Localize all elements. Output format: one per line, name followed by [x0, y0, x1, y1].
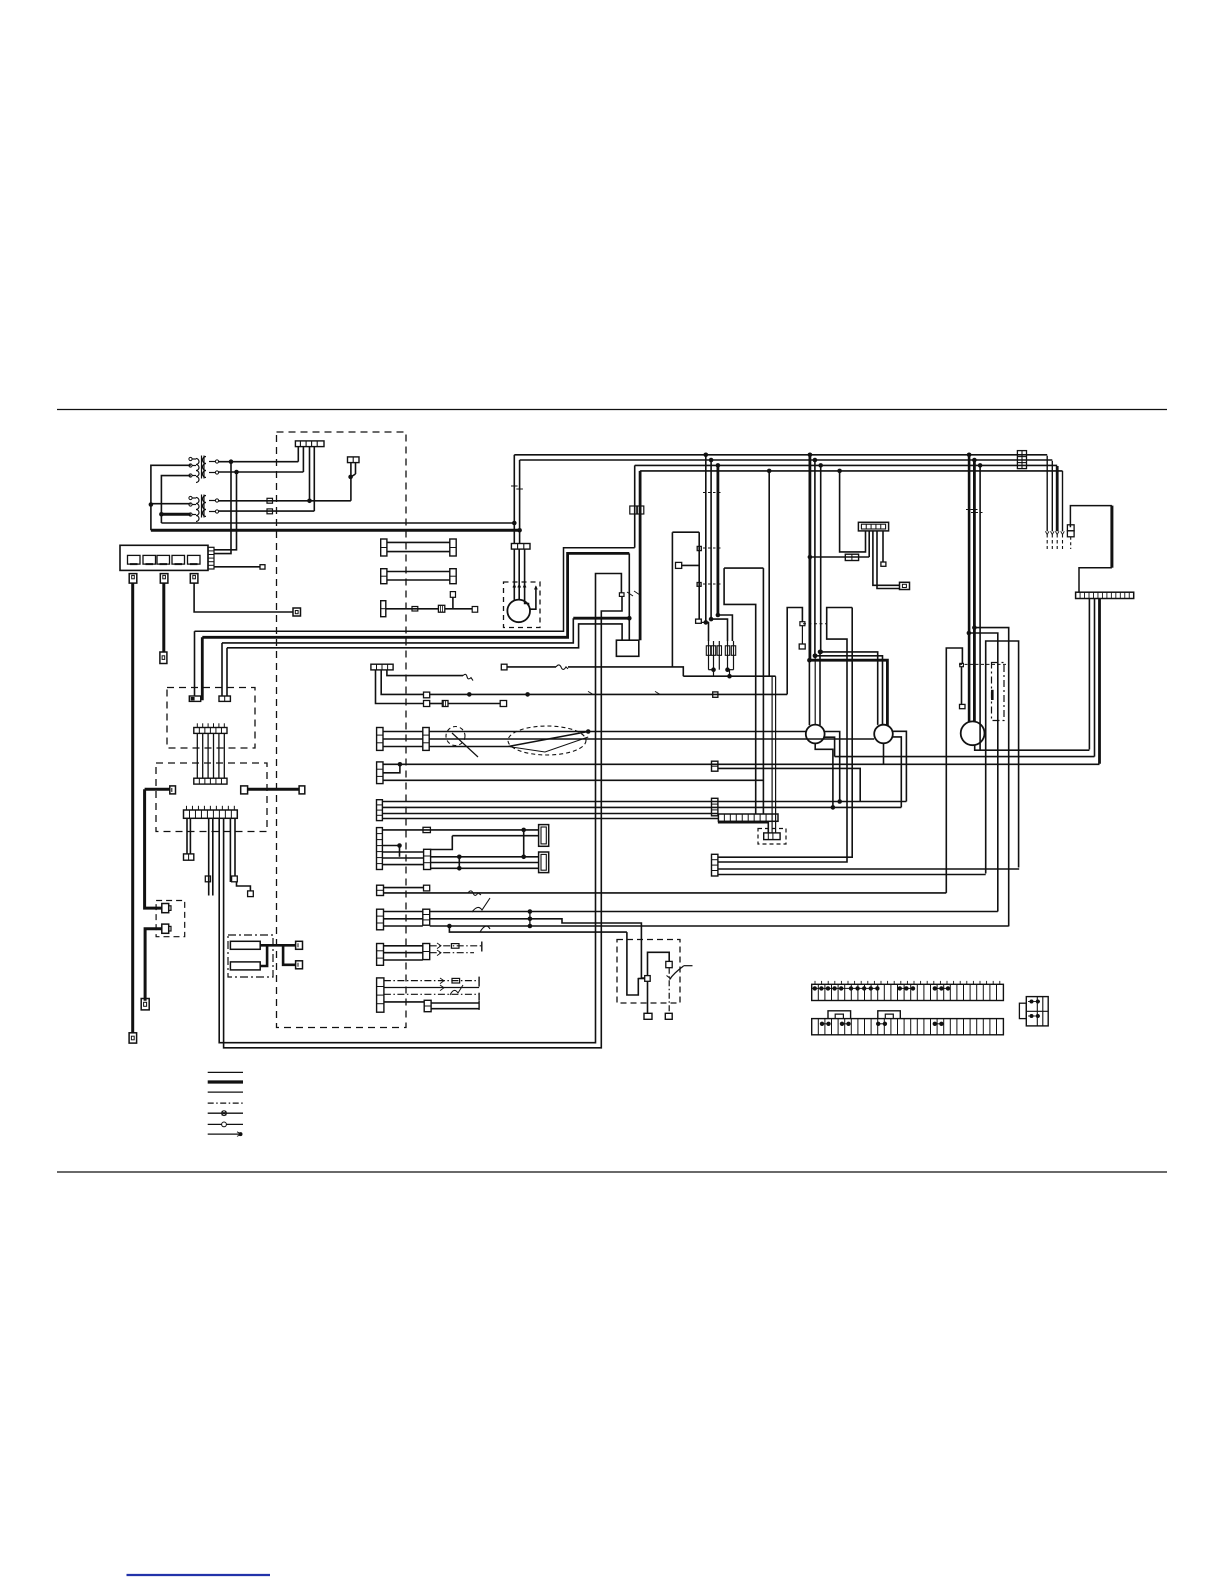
cable end bar 1 [481, 942, 483, 952]
wire c7 line4 [431, 856, 539, 858]
wire thick plug link [248, 788, 300, 791]
wire c7 line2 [452, 835, 538, 837]
diode pack elements [708, 641, 710, 670]
wire c7 jog [399, 846, 401, 857]
terminal sq row0b [424, 701, 430, 707]
wire thick jog y618 [573, 617, 629, 620]
inline connector pair [630, 506, 637, 514]
strip2 dots [820, 1022, 824, 1026]
wire c7 line6 [431, 867, 539, 869]
wire starter lead 4 [530, 587, 536, 610]
wire bundle end3 [221, 643, 223, 696]
relay connector block [858, 522, 888, 531]
strip2 bridge 1 [828, 1011, 851, 1019]
cable row4b [384, 987, 479, 989]
separator dashed meter [959, 663, 1006, 665]
connector 2P y887 [377, 885, 384, 895]
connector 2P a [189, 696, 200, 701]
relay box A [539, 825, 549, 847]
fuse F3 [157, 555, 170, 564]
cable end bar 4b [478, 993, 480, 1001]
headlamp R circle [874, 725, 893, 744]
wire jog right 1 [974, 628, 1008, 927]
junction dot [978, 463, 983, 468]
terminal square [260, 565, 265, 569]
splice squiggle [450, 985, 463, 995]
wire strip drop 1 [1088, 599, 1090, 750]
legend line dashdot [208, 1102, 243, 1104]
splice squiggle [468, 891, 481, 896]
wire bus4 tap drop [768, 471, 770, 676]
fuse F4 [172, 555, 185, 564]
arrow marks [440, 978, 444, 991]
wire coil1 primary lower [161, 476, 190, 523]
cable dashdot 1 [430, 945, 482, 947]
junction dot [808, 453, 813, 458]
connector 9P main ticks [185, 806, 187, 810]
wire connector pin2 [302, 447, 304, 472]
wire lampR bottom [883, 743, 885, 764]
wire switch feed [627, 932, 638, 995]
wire ignition sw riser thick [1070, 506, 1112, 528]
junction dot [831, 805, 836, 810]
junction dot [398, 762, 403, 767]
junction dot [159, 512, 164, 517]
wire connector pin3 [309, 447, 311, 501]
wire bus tap x820 [820, 465, 822, 652]
wire terminal link [682, 564, 700, 566]
wire sq3 link [701, 621, 706, 623]
wire row C [386, 608, 439, 610]
breakaway square [619, 593, 624, 597]
wire y768 jog [718, 768, 860, 801]
connector 9P main [184, 810, 238, 818]
fuse box [120, 545, 208, 570]
wire pair A line2 [387, 551, 450, 553]
switch blob [991, 690, 994, 700]
plug right mid [900, 582, 910, 589]
wire pair A line1 [387, 541, 450, 543]
dashed box connector group [167, 688, 255, 749]
wire headlight line2 [429, 738, 874, 740]
wire relay drop pair [873, 531, 900, 585]
junction dot [229, 459, 234, 464]
switch arm [670, 966, 684, 980]
wire long y893 [384, 892, 947, 894]
wire lamp1 taps [808, 660, 810, 725]
wire coil1 secondary bottom to connector [219, 471, 304, 473]
switch contact A [645, 976, 651, 982]
diode block [764, 833, 780, 840]
cable end bar 4a [478, 977, 480, 987]
plug contact 2 [162, 924, 169, 933]
wire fusebox to ground lug [214, 566, 260, 568]
wire R2 crossover thick [260, 945, 267, 966]
bus line 1 [514, 454, 1047, 456]
arrow tick [1051, 531, 1055, 534]
terminal sq A [644, 1013, 652, 1019]
wire y667 a [507, 666, 556, 668]
wire y918 to dot [430, 918, 530, 920]
junction dot [967, 631, 972, 636]
junction dot [528, 924, 533, 929]
wire r2 line2 jog [383, 764, 400, 773]
wire lamp feed 2 [815, 656, 883, 725]
legend line thin [208, 1071, 243, 1073]
wire long y764 thick-path [383, 763, 1100, 765]
sensor sq 1 [697, 546, 701, 550]
starter motor circle [507, 600, 530, 623]
wire diode feed [718, 823, 768, 833]
dashed box plug pair [156, 901, 185, 937]
wire plug1 main lead [131, 583, 134, 1033]
footer link underline [127, 1574, 271, 1576]
wire bus4 drop thick [639, 471, 642, 640]
wire bundle line1 [195, 548, 635, 632]
connector 3P y909 [377, 909, 384, 930]
junction dot [808, 555, 813, 560]
fuse plug 2 [160, 574, 168, 584]
connector pair row A right [450, 539, 456, 556]
terminal square b [232, 876, 238, 882]
wire pair to 2P block [186, 818, 188, 854]
wire lamp feed 1 [821, 652, 878, 725]
wire meter frame [946, 648, 962, 893]
junction dot [627, 616, 632, 621]
junction dot [709, 458, 714, 463]
inline connector [267, 509, 273, 514]
connector 4P row0 [371, 664, 393, 670]
cable dashdot row4a [384, 980, 479, 982]
junction block dots [1030, 1000, 1034, 1004]
wire c7 links [382, 851, 423, 853]
wire line y818 [382, 818, 718, 820]
terminal strip 1 [812, 984, 1004, 1000]
connector 6P stack top ticks [196, 723, 198, 727]
wire long y694 [430, 693, 788, 695]
connector pair row B right [450, 569, 456, 584]
wire bundle line2 thick [202, 553, 629, 637]
dashed box starter motor [504, 582, 541, 628]
junction dot [467, 692, 472, 697]
cable dashdot 2 [430, 952, 474, 954]
connector 6P stack bottom bar [194, 778, 227, 784]
junction dot [716, 613, 721, 618]
wire square b link [237, 882, 251, 891]
tap square meter [960, 663, 964, 666]
arrow tick [1061, 531, 1065, 534]
wire r1 link1 [383, 731, 423, 733]
wire bus tap x974 thick [973, 460, 976, 722]
wire row0 pin1 [381, 670, 423, 695]
ignition coil T2 [196, 498, 199, 522]
plug half B [241, 786, 248, 794]
wire bridge jog [986, 641, 1019, 874]
strip2 bridge 2 [878, 1011, 901, 1019]
junction dot [709, 617, 714, 622]
CDI unit box [616, 640, 638, 656]
terminal sq relay [881, 562, 886, 566]
junction dot [972, 625, 977, 630]
inline sq hatched row C [438, 605, 444, 612]
connector 2P relay [845, 554, 858, 560]
junction dot [818, 463, 823, 468]
wire bus drop x514 [513, 455, 515, 544]
relay box B [539, 852, 549, 873]
wire line y756 [835, 756, 1095, 758]
junction dot [521, 828, 526, 833]
connector 2P small [348, 457, 360, 463]
splice mark pair [966, 509, 978, 511]
wire pair mid [208, 818, 210, 895]
connector 3P inline y800 [712, 798, 718, 816]
wire to terminal [448, 703, 500, 705]
bus line 3 [635, 464, 1057, 466]
dashed loop callout small [446, 727, 465, 746]
wire relay drop sq [882, 531, 884, 562]
connector 6P top [295, 441, 324, 447]
junction dot [807, 658, 812, 663]
junction dot [727, 674, 732, 679]
connector 2P below [184, 854, 194, 860]
wire coil1 secondary top to connector [219, 461, 299, 463]
wire headlight line1 [429, 731, 806, 733]
wire y857 jog [718, 608, 852, 858]
inline sq [423, 827, 430, 832]
wire bus4 tap x839 [840, 471, 866, 552]
connector 2P y943 mid [423, 944, 430, 960]
end plug connector [141, 999, 149, 1010]
ignition coil T1 [196, 459, 199, 483]
wire coil1 primary left [151, 465, 191, 530]
wire pair B line1 [387, 571, 450, 573]
wire coil feed down-left 2 [214, 472, 237, 550]
wire contact A down [647, 981, 649, 1013]
wire row4e [431, 1002, 479, 1004]
splice marks on taps [703, 492, 721, 494]
wire jog 3 [706, 622, 709, 641]
wire coil2 primary ground stub [161, 513, 190, 516]
wire y874 long [718, 874, 986, 876]
connector 4P lights [377, 800, 383, 821]
wire R1 out thick [260, 944, 295, 947]
wire frame left [724, 568, 756, 814]
switch arm ext [684, 965, 693, 967]
wire drop to rect [628, 553, 630, 640]
junction dot [716, 463, 721, 468]
fuse plug 1 [129, 574, 137, 584]
tap square [800, 622, 805, 626]
dashed stub comp [1070, 537, 1072, 549]
wire c7 link [458, 857, 460, 869]
wire lampR right [893, 731, 907, 801]
splice squiggle [463, 674, 473, 680]
wire y869 long [718, 868, 1019, 870]
dashed box diode [758, 829, 786, 845]
junction dot [711, 667, 716, 672]
wire jog right 2 [969, 633, 998, 912]
wire y667 b [568, 667, 683, 676]
connector 2P b [219, 696, 230, 701]
terminal sq y667 [501, 664, 507, 670]
junction dot [725, 667, 730, 672]
arrow tick [1045, 531, 1049, 534]
wire thick bus y530 [151, 529, 520, 532]
junction block tab [1019, 1003, 1026, 1018]
wire 2P stems [350, 463, 352, 477]
wire bus3 drop [634, 465, 636, 547]
junction dot [837, 799, 842, 804]
plug1 end connector [129, 1033, 137, 1043]
wire links y909 [384, 911, 423, 913]
wire r1 link2 [383, 738, 423, 740]
terminal sq B [665, 1013, 672, 1019]
terminal square c [248, 891, 254, 897]
switch blade dashdot [668, 968, 670, 1014]
junction dot [348, 475, 353, 480]
wire frame right [762, 568, 764, 814]
junction dot [813, 654, 818, 659]
plug2 end connector [160, 652, 167, 664]
junction dot [528, 917, 533, 922]
terminal sq row0a [424, 692, 430, 698]
terminal sq row C up [450, 592, 455, 598]
wire c7 line5 [431, 862, 539, 864]
wire starter lead 2 [518, 549, 520, 600]
wire y862 jog [718, 608, 852, 863]
wire contact A link [638, 978, 644, 980]
connector pair row B left [381, 569, 387, 584]
plug half A [170, 786, 176, 794]
wire y887 stub [384, 887, 424, 889]
wire tach bottom [975, 745, 1090, 750]
junction dot [967, 453, 972, 458]
wire coil feed down-left 1 [214, 462, 231, 554]
diode pack ties [709, 669, 714, 671]
inline square y694 [713, 692, 718, 697]
wire connector pin4 [313, 447, 315, 512]
splice mark [511, 485, 518, 487]
terminal sq tap [799, 644, 805, 649]
wire row2 line3 [383, 779, 763, 781]
junction dot [704, 453, 709, 458]
wire y918 cont to switch [530, 919, 645, 978]
plug3 end connector [293, 608, 301, 616]
wire links y943 [384, 945, 423, 947]
junction dot [234, 470, 239, 475]
wire collector y676 [683, 675, 775, 677]
wire row C cont [445, 608, 472, 610]
bottom horizontal rule [57, 1171, 1167, 1173]
wire c7 line1 [382, 829, 538, 831]
tachometer circle [961, 721, 985, 745]
connector 2P row C [381, 601, 386, 617]
wire bus drop x519 [519, 460, 521, 544]
wire line y807 [382, 806, 901, 808]
dashed box frame sub-harness [277, 432, 407, 1028]
connector strip right [1076, 592, 1134, 598]
legend line terminal [208, 1133, 240, 1135]
wire long y911 [430, 911, 998, 913]
dash-dot box switch lever [992, 663, 1005, 721]
connector 4P inline on buses [1017, 451, 1026, 469]
wire thick left drop [145, 789, 162, 908]
wire row0 pin2 [376, 670, 424, 704]
sensor sq 2 [697, 583, 701, 587]
cable row4c [384, 993, 479, 995]
wire lampL lower right [824, 737, 835, 756]
wire lampL right [825, 732, 840, 802]
wire bundle end4 [226, 648, 228, 696]
strip1 dots [813, 986, 817, 990]
fuse F2 [143, 555, 156, 564]
wire long line y523 [161, 522, 514, 524]
wire plug3 lead [194, 583, 293, 612]
fuse F1 [128, 555, 141, 564]
legend line thick [208, 1080, 243, 1083]
wire lampL bottom [815, 743, 833, 807]
wire branch down thick [283, 945, 296, 965]
connector 2P r2 left [377, 762, 383, 784]
bus line 2 [520, 459, 1053, 461]
connector 3P mid c7 [424, 849, 431, 869]
wire meter sensor [961, 667, 963, 705]
wire connector pin1 [297, 447, 299, 462]
resistor R2 [230, 962, 260, 970]
junction dot [457, 866, 462, 871]
plug R out 2 [296, 961, 303, 969]
junction dot [149, 502, 154, 507]
wire lampR lower [893, 737, 902, 808]
dashed box rear switch [617, 940, 680, 1004]
wire y932 jog [449, 926, 627, 932]
junction dot [517, 528, 522, 533]
terminal sq meter [960, 704, 966, 708]
terminal sq left [676, 562, 682, 568]
junction dot [521, 855, 526, 860]
wire 2P to line [350, 477, 352, 501]
junction dot [528, 909, 533, 914]
connector 3P y909 mid [423, 909, 430, 925]
connector 4P y854 [712, 854, 718, 876]
ignition connector comp [1067, 525, 1074, 531]
wire bus tap x969 thick [968, 455, 971, 723]
headlamp L circle [806, 725, 825, 744]
wire bundle line3 [222, 618, 573, 643]
terminal sq [500, 701, 506, 707]
wire bus tap drop 1 [705, 455, 707, 623]
inline sq row C [412, 607, 418, 612]
wire hatch sq link [430, 703, 443, 705]
splice mark [627, 592, 633, 596]
connector 4P y978 [377, 978, 384, 1012]
wire r1 link3 [383, 746, 423, 748]
wire bus tap x809 thick [809, 455, 812, 660]
wire bus end drop 3 [1056, 466, 1059, 531]
wire bundle end2 thick [201, 637, 203, 699]
wire bus end drop 1 [1046, 456, 1048, 532]
dashed stub [1056, 534, 1058, 549]
legend line thin 2 [208, 1091, 243, 1093]
separator dashed relay [803, 623, 827, 625]
wire riser elbow [1079, 568, 1112, 593]
wire dot column [529, 912, 531, 927]
arrow marks [437, 943, 441, 956]
wire starter lead 3 [525, 549, 529, 606]
wire plug2 lead [162, 583, 165, 652]
inline hatched square [442, 701, 448, 707]
wire tap down [801, 626, 803, 644]
